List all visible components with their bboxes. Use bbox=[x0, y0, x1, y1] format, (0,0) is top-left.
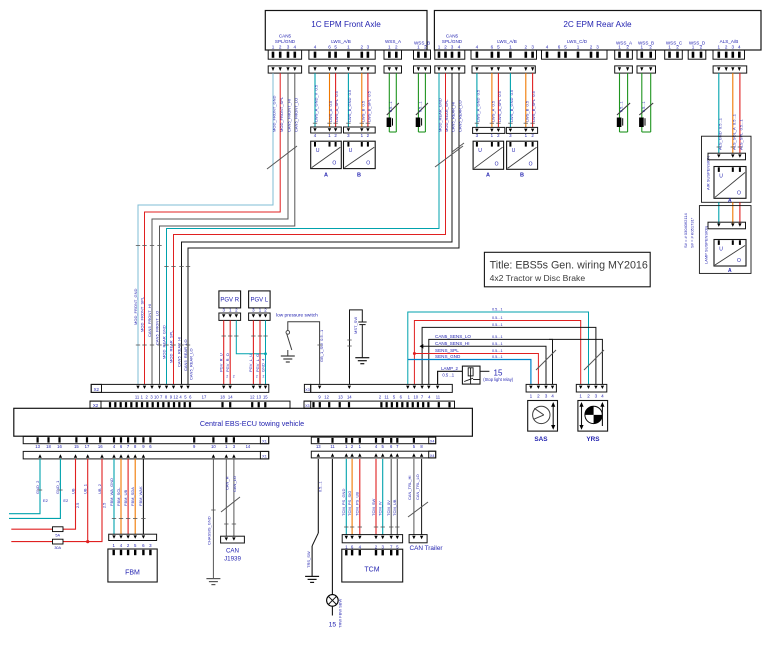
svg-text:0.5...1: 0.5...1 bbox=[619, 101, 623, 112]
svg-text:2: 2 bbox=[700, 44, 703, 49]
svg-text:LWS_B_SPL 0.5: LWS_B_SPL 0.5 bbox=[367, 90, 372, 122]
svg-text:3: 3 bbox=[545, 394, 548, 399]
svg-text:ALS_GND 0.5...1: ALS_GND 0.5...1 bbox=[717, 117, 722, 150]
svg-text:3: 3 bbox=[596, 44, 599, 49]
svg-text:CAN_TRL_HI: CAN_TRL_HI bbox=[407, 476, 412, 500]
svg-text:2: 2 bbox=[424, 44, 427, 49]
svg-text:15: 15 bbox=[263, 394, 268, 399]
svg-text:2: 2 bbox=[590, 44, 593, 49]
svg-text:TCM_PS_SIG: TCM_PS_SIG bbox=[347, 491, 352, 516]
svg-text:5: 5 bbox=[334, 44, 337, 49]
svg-text:1: 1 bbox=[417, 44, 420, 49]
svg-text:MOD_FRONT_SPL: MOD_FRONT_SPL bbox=[279, 96, 284, 132]
svg-text:CAN5: CAN5 bbox=[446, 34, 459, 39]
svg-text:11: 11 bbox=[330, 444, 335, 449]
svg-text:2: 2 bbox=[361, 44, 364, 49]
svg-text:4: 4 bbox=[294, 44, 297, 49]
svg-text:4: 4 bbox=[546, 44, 549, 49]
svg-text:TRW FBW SBW: TRW FBW SBW bbox=[338, 599, 343, 628]
svg-text:15: 15 bbox=[329, 622, 337, 629]
svg-text:15: 15 bbox=[74, 444, 79, 449]
svg-text:S# = # K051731*: S# = # K051731* bbox=[690, 217, 695, 248]
svg-text:CAN5_SENS_LO: CAN5_SENS_LO bbox=[435, 334, 471, 339]
svg-text:Central EBS-ECU towing vehicle: Central EBS-ECU towing vehicle bbox=[200, 419, 304, 428]
svg-text:1: 1 bbox=[718, 44, 721, 49]
svg-text:ALS_SOL_A 0.5...1: ALS_SOL_A 0.5...1 bbox=[731, 113, 736, 150]
svg-text:CAN5_FRONT_LO: CAN5_FRONT_LO bbox=[154, 311, 159, 345]
svg-text:13: 13 bbox=[338, 394, 343, 399]
svg-text:CAN5_FRONT_HI: CAN5_FRONT_HI bbox=[287, 99, 292, 132]
svg-text:0.5...1: 0.5...1 bbox=[492, 335, 503, 339]
svg-text:UB_1: UB_1 bbox=[83, 483, 88, 494]
svg-text:(Stop light relay): (Stop light relay) bbox=[483, 377, 513, 382]
svg-text:TCM: TCM bbox=[364, 567, 379, 574]
svg-text:YRS: YRS bbox=[586, 436, 600, 443]
svg-text:1: 1 bbox=[388, 44, 391, 49]
svg-text:LAMP_2: LAMP_2 bbox=[441, 366, 458, 371]
svg-text:0.5...1: 0.5...1 bbox=[389, 101, 393, 112]
svg-text:3: 3 bbox=[595, 394, 598, 399]
svg-text:J1939: J1939 bbox=[224, 556, 241, 563]
svg-text:11: 11 bbox=[436, 394, 441, 399]
svg-text:U: U bbox=[349, 148, 353, 154]
svg-text:5A: 5A bbox=[55, 533, 60, 537]
svg-text:SPL/GND: SPL/GND bbox=[275, 39, 296, 44]
svg-text:X4: X4 bbox=[430, 440, 435, 444]
svg-text:X2: X2 bbox=[93, 403, 99, 408]
svg-text:2: 2 bbox=[263, 375, 265, 379]
svg-text:CAN5_FRONT_LO: CAN5_FRONT_LO bbox=[293, 98, 298, 132]
svg-text:LWS_A_GND_V 0.5: LWS_A_GND_V 0.5 bbox=[314, 84, 319, 122]
svg-text:LAMP SUSPENSION: LAMP SUSPENSION bbox=[704, 226, 709, 264]
svg-text:O: O bbox=[529, 161, 533, 167]
svg-text:LWS_A/B: LWS_A/B bbox=[331, 39, 351, 44]
svg-text:X1: X1 bbox=[262, 455, 267, 459]
svg-text:1: 1 bbox=[618, 44, 621, 49]
svg-text:0.5...1: 0.5...1 bbox=[418, 101, 422, 112]
svg-text:U: U bbox=[719, 247, 723, 253]
svg-text:2: 2 bbox=[226, 375, 228, 379]
svg-text:30A: 30A bbox=[54, 546, 61, 550]
svg-text:CAN5: CAN5 bbox=[279, 34, 292, 39]
svg-text:16: 16 bbox=[98, 444, 103, 449]
svg-text:B: B bbox=[520, 173, 524, 179]
svg-text:LWS_B_GND 0.5: LWS_B_GND 0.5 bbox=[347, 89, 352, 122]
svg-text:U: U bbox=[316, 148, 320, 154]
svg-text:GND_4: GND_4 bbox=[260, 358, 265, 372]
svg-text:LWS_A_SPL 0.5: LWS_A_SPL 0.5 bbox=[334, 90, 339, 122]
svg-text:LWS_A 0.5: LWS_A 0.5 bbox=[328, 100, 333, 122]
svg-text:2: 2 bbox=[233, 375, 235, 379]
svg-text:TRS_SW: TRS_SW bbox=[306, 551, 311, 568]
svg-text:SENS_SPL: SENS_SPL bbox=[435, 348, 459, 353]
svg-text:TCM_UB: TCM_UB bbox=[392, 499, 397, 516]
svg-text:PGV_L_O: PGV_L_O bbox=[255, 354, 260, 372]
svg-text:2.5: 2.5 bbox=[103, 503, 107, 508]
svg-text:1: 1 bbox=[272, 44, 275, 49]
svg-text:0.5...1: 0.5...1 bbox=[492, 342, 503, 346]
svg-text:X4: X4 bbox=[430, 454, 435, 458]
svg-text:1C EPM Front Axle: 1C EPM Front Axle bbox=[311, 20, 381, 29]
svg-text:U: U bbox=[512, 148, 516, 154]
svg-text:CAN Trailer: CAN Trailer bbox=[409, 545, 443, 552]
svg-text:TCM_0V: TCM_0V bbox=[386, 500, 391, 516]
svg-text:MOD_REAR_SPL: MOD_REAR_SPL bbox=[444, 99, 449, 132]
svg-text:12: 12 bbox=[250, 394, 255, 399]
svg-text:A: A bbox=[486, 173, 490, 179]
svg-text:3: 3 bbox=[367, 44, 370, 49]
svg-text:X3: X3 bbox=[305, 404, 309, 408]
svg-text:2: 2 bbox=[256, 375, 258, 379]
svg-text:10: 10 bbox=[154, 394, 159, 399]
svg-text:11: 11 bbox=[384, 394, 389, 399]
svg-text:CAN5_SENS_HI: CAN5_SENS_HI bbox=[435, 341, 469, 346]
svg-text:CAN5_REAR_LO: CAN5_REAR_LO bbox=[189, 348, 194, 380]
svg-text:18: 18 bbox=[220, 394, 225, 399]
svg-text:2C EPM Rear Axle: 2C EPM Rear Axle bbox=[563, 20, 632, 29]
svg-text:MOD_REAR_GND: MOD_REAR_GND bbox=[438, 98, 443, 132]
svg-text:13: 13 bbox=[256, 394, 261, 399]
svg-text:MOD_FRONT_SPL: MOD_FRONT_SPL bbox=[139, 296, 144, 332]
svg-text:CAN5_REAR_LO: CAN5_REAR_LO bbox=[458, 100, 463, 132]
svg-text:FBM_WAK: FBM_WAK bbox=[138, 486, 143, 506]
svg-text:A: A bbox=[728, 268, 732, 274]
svg-text:1: 1 bbox=[577, 44, 580, 49]
svg-text:PGV R: PGV R bbox=[220, 298, 239, 304]
svg-text:B: B bbox=[357, 173, 361, 179]
svg-text:TCM_IV: TCM_IV bbox=[378, 501, 383, 516]
svg-text:LWS_A 0.5: LWS_A 0.5 bbox=[491, 100, 496, 122]
svg-text:CHASSIS_GND: CHASSIS_GND bbox=[207, 516, 212, 545]
svg-text:FBM_WA_GND: FBM_WA_GND bbox=[109, 478, 114, 506]
svg-text:CAN5_REAR_HI: CAN5_REAR_HI bbox=[451, 102, 456, 132]
svg-text:U: U bbox=[719, 174, 723, 180]
svg-text:17: 17 bbox=[202, 394, 207, 399]
svg-text:3: 3 bbox=[531, 44, 534, 49]
svg-text:2: 2 bbox=[626, 44, 629, 49]
svg-text:3: 3 bbox=[451, 44, 454, 49]
svg-text:1: 1 bbox=[530, 394, 533, 399]
svg-text:E2: E2 bbox=[63, 498, 69, 503]
svg-text:4: 4 bbox=[551, 394, 554, 399]
svg-text:0.5...1: 0.5...1 bbox=[642, 101, 646, 112]
svg-text:14: 14 bbox=[347, 394, 352, 399]
svg-text:MOD_REAR_SPL: MOD_REAR_SPL bbox=[168, 330, 173, 363]
svg-text:X2: X2 bbox=[94, 387, 100, 392]
svg-text:CAN5_REAR_HI: CAN5_REAR_HI bbox=[176, 337, 181, 367]
svg-text:1: 1 bbox=[509, 44, 512, 49]
svg-text:S# = # 0304062114: S# = # 0304062114 bbox=[683, 212, 688, 248]
svg-text:CAN5_REAR_LO: CAN5_REAR_LO bbox=[183, 339, 188, 371]
svg-text:O: O bbox=[737, 258, 741, 264]
svg-text:TCM_SW: TCM_SW bbox=[371, 498, 376, 516]
svg-text:0.5...1: 0.5...1 bbox=[492, 355, 503, 359]
svg-text:TCM_PS_GND: TCM_PS_GND bbox=[341, 489, 346, 516]
svg-text:MST_SW: MST_SW bbox=[353, 317, 358, 334]
svg-text:PGV_L_U: PGV_L_U bbox=[248, 354, 253, 372]
svg-text:10: 10 bbox=[211, 444, 216, 449]
svg-text:MOD_FRONT_GND: MOD_FRONT_GND bbox=[272, 95, 277, 132]
svg-text:FBM_UB: FBM_UB bbox=[123, 489, 128, 506]
svg-text:X3: X3 bbox=[305, 388, 309, 392]
svg-text:1: 1 bbox=[641, 44, 644, 49]
svg-text:UB_2: UB_2 bbox=[97, 483, 102, 494]
svg-text:16: 16 bbox=[57, 444, 62, 449]
svg-text:1: 1 bbox=[579, 394, 582, 399]
svg-text:UB: UB bbox=[70, 488, 75, 494]
svg-text:low pressure switch: low pressure switch bbox=[276, 313, 318, 319]
svg-text:0.5...1: 0.5...1 bbox=[319, 481, 323, 492]
svg-text:2: 2 bbox=[676, 44, 679, 49]
svg-text:0.5...1: 0.5...1 bbox=[492, 349, 503, 353]
svg-text:2: 2 bbox=[537, 394, 540, 399]
svg-text:6: 6 bbox=[558, 44, 561, 49]
svg-text:4: 4 bbox=[476, 44, 479, 49]
svg-text:E2: E2 bbox=[43, 498, 49, 503]
svg-text:AIR SUSPENSION: AIR SUSPENSION bbox=[706, 156, 711, 190]
svg-text:LWS_A/B: LWS_A/B bbox=[497, 39, 517, 44]
svg-text:Title: EBS5s Gen. wiring MY201: Title: EBS5s Gen. wiring MY2016 bbox=[490, 259, 648, 271]
svg-text:O: O bbox=[332, 161, 336, 167]
svg-text:PGV_R_U: PGV_R_U bbox=[219, 353, 224, 372]
svg-text:4: 4 bbox=[738, 44, 741, 49]
svg-text:2: 2 bbox=[279, 44, 282, 49]
svg-text:4: 4 bbox=[601, 394, 604, 399]
svg-text:0.5...1: 0.5...1 bbox=[492, 316, 503, 320]
svg-text:2: 2 bbox=[649, 44, 652, 49]
svg-text:6: 6 bbox=[328, 44, 331, 49]
svg-text:2: 2 bbox=[725, 44, 728, 49]
svg-text:GND_1: GND_1 bbox=[55, 480, 60, 494]
svg-text:17: 17 bbox=[85, 444, 90, 449]
svg-text:PGV L: PGV L bbox=[250, 298, 268, 304]
svg-text:CAN_TRL_LO: CAN_TRL_LO bbox=[415, 474, 420, 500]
svg-text:SPL/GND: SPL/GND bbox=[442, 39, 463, 44]
svg-text:1: 1 bbox=[692, 44, 695, 49]
svg-text:1: 1 bbox=[347, 44, 350, 49]
svg-text:O: O bbox=[737, 190, 741, 196]
svg-text:LWS_B 0.5: LWS_B 0.5 bbox=[360, 100, 365, 122]
svg-text:PGV_R_O: PGV_R_O bbox=[225, 353, 230, 372]
svg-text:CAN: CAN bbox=[226, 548, 239, 555]
svg-text:5: 5 bbox=[497, 44, 500, 49]
svg-text:13: 13 bbox=[316, 444, 321, 449]
svg-text:ALS_SPL 0.5...1: ALS_SPL 0.5...1 bbox=[739, 119, 744, 150]
svg-text:LWS_A_GND 0.5: LWS_A_GND 0.5 bbox=[476, 89, 481, 122]
svg-text:14: 14 bbox=[246, 444, 251, 449]
svg-text:U: U bbox=[478, 148, 482, 154]
svg-text:LWS_B 0.5: LWS_B 0.5 bbox=[524, 100, 529, 122]
svg-text:O: O bbox=[366, 161, 370, 167]
svg-text:2: 2 bbox=[444, 44, 447, 49]
svg-text:4: 4 bbox=[314, 44, 317, 49]
svg-text:CAN5_FRONT_HI: CAN5_FRONT_HI bbox=[147, 304, 152, 337]
svg-text:CAN_H: CAN_H bbox=[224, 476, 229, 490]
svg-text:10: 10 bbox=[413, 394, 418, 399]
svg-text:TCM_PS_UB: TCM_PS_UB bbox=[355, 492, 360, 516]
svg-text:1: 1 bbox=[668, 44, 671, 49]
svg-text:X1: X1 bbox=[262, 439, 267, 443]
svg-text:ALS_A/B: ALS_A/B bbox=[720, 39, 739, 44]
svg-text:SAS: SAS bbox=[534, 436, 548, 443]
svg-text:0.5...1: 0.5...1 bbox=[492, 323, 503, 327]
svg-text:14: 14 bbox=[228, 394, 233, 399]
svg-text:2: 2 bbox=[587, 394, 590, 399]
svg-text:6: 6 bbox=[491, 44, 494, 49]
svg-text:SENS_GND: SENS_GND bbox=[435, 354, 461, 359]
svg-text:GB_1_SW 0.5...1: GB_1_SW 0.5...1 bbox=[319, 329, 324, 362]
svg-text:11: 11 bbox=[135, 394, 140, 399]
svg-text:12: 12 bbox=[324, 394, 329, 399]
svg-text:18: 18 bbox=[46, 444, 51, 449]
svg-text:2: 2 bbox=[525, 44, 528, 49]
svg-text:12: 12 bbox=[173, 394, 178, 399]
svg-text:LWS_B_GND 0.5: LWS_B_GND 0.5 bbox=[509, 89, 514, 122]
svg-text:0.5...1: 0.5...1 bbox=[492, 308, 503, 312]
svg-text:4: 4 bbox=[458, 44, 461, 49]
svg-text:0.5 ..1: 0.5 ..1 bbox=[442, 372, 454, 377]
svg-text:O: O bbox=[495, 161, 499, 167]
svg-text:3: 3 bbox=[287, 44, 290, 49]
svg-text:LWS_C/D: LWS_C/D bbox=[567, 39, 588, 44]
svg-text:CAN_LO: CAN_LO bbox=[232, 476, 237, 492]
svg-text:LWS_A_SPL 0.5: LWS_A_SPL 0.5 bbox=[497, 90, 502, 122]
svg-text:A: A bbox=[324, 173, 328, 179]
svg-text:A: A bbox=[728, 198, 732, 204]
svg-text:GND_2: GND_2 bbox=[35, 480, 40, 494]
svg-text:MOD_FRONT_GND: MOD_FRONT_GND bbox=[133, 288, 138, 325]
svg-text:13: 13 bbox=[35, 444, 40, 449]
svg-text:2.5: 2.5 bbox=[76, 503, 80, 508]
svg-text:FBM_SCL: FBM_SCL bbox=[116, 487, 121, 506]
svg-text:2: 2 bbox=[395, 44, 398, 49]
svg-text:5: 5 bbox=[564, 44, 567, 49]
svg-text:WSS_A: WSS_A bbox=[385, 39, 402, 44]
svg-text:3: 3 bbox=[732, 44, 735, 49]
svg-text:FBM: FBM bbox=[125, 570, 140, 577]
svg-text:LWS_B_SPL 0.5: LWS_B_SPL 0.5 bbox=[531, 90, 536, 122]
svg-text:MOD_REAR_GND: MOD_REAR_GND bbox=[161, 325, 166, 359]
svg-text:4x2 Tractor w Disc Brake: 4x2 Tractor w Disc Brake bbox=[490, 273, 586, 283]
svg-text:1: 1 bbox=[438, 44, 441, 49]
svg-text:FBM_SDA: FBM_SDA bbox=[130, 487, 135, 506]
